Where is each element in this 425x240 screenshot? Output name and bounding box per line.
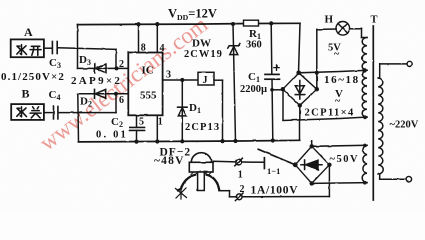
svg-text:B: B	[22, 87, 30, 101]
svg-text:1: 1	[158, 117, 163, 128]
svg-text:2CP13: 2CP13	[185, 122, 220, 133]
svg-text:16~18: 16~18	[324, 74, 360, 86]
svg-text:0. 01: 0. 01	[96, 130, 128, 141]
svg-text:2200µ: 2200µ	[240, 84, 267, 95]
svg-text:T: T	[371, 15, 378, 26]
svg-text:J: J	[203, 75, 208, 86]
svg-text:1: 1	[238, 170, 243, 181]
svg-text:~: ~	[334, 49, 340, 60]
svg-text:5: 5	[139, 117, 144, 128]
svg-text:~50V: ~50V	[330, 154, 360, 165]
svg-text:A: A	[24, 25, 33, 39]
svg-text:2CP11×4: 2CP11×4	[305, 108, 355, 119]
svg-text:1A/100V: 1A/100V	[251, 184, 299, 196]
svg-text:~220V: ~220V	[390, 120, 419, 131]
svg-text:H: H	[325, 13, 334, 25]
svg-text:1−1: 1−1	[267, 166, 280, 176]
svg-text:360: 360	[246, 40, 262, 51]
svg-text:2: 2	[240, 184, 245, 195]
svg-text:555: 555	[140, 90, 157, 102]
svg-text:~48V: ~48V	[154, 155, 185, 167]
svg-text:~: ~	[335, 96, 341, 107]
svg-text:2CW19: 2CW19	[184, 49, 223, 60]
svg-text:0.1/250V×2: 0.1/250V×2	[1, 71, 65, 83]
svg-text:3: 3	[166, 70, 171, 81]
